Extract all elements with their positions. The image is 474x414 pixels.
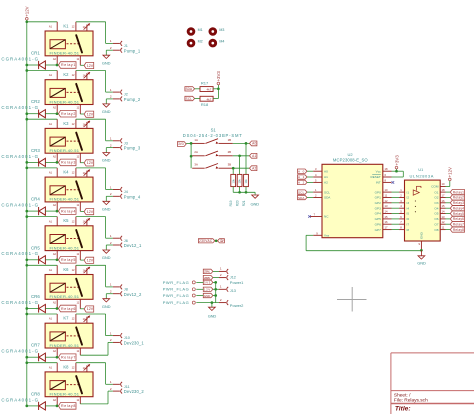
node coil junction row 2 — [25, 112, 58, 115]
svg-text:CR5: CR5 — [31, 245, 40, 250]
label Relay4 out — [450, 206, 464, 211]
relay K6 FINDER-40.51 — [45, 265, 93, 309]
svg-text:FINDER-40.51: FINDER-40.51 — [50, 51, 80, 56]
label Relay6 out — [450, 216, 464, 221]
svg-text:A2: A2 — [53, 349, 57, 353]
node U1 gnd junction — [420, 249, 423, 252]
label 12V row 3 — [84, 160, 94, 166]
svg-text:3A: 3A — [194, 163, 198, 167]
svg-text:A1: A1 — [49, 171, 53, 175]
svg-text:Title:: Title: — [395, 405, 411, 412]
ground U1 — [417, 250, 426, 265]
wire pin2 to GND row 6 — [106, 294, 113, 299]
wire common pin row 3 — [80, 162, 84, 164]
svg-text:16: 16 — [385, 220, 388, 224]
svg-text:FINDER-40.51: FINDER-40.51 — [50, 99, 80, 104]
pin 3 U1 I3 — [399, 199, 409, 205]
power symbol +12V — [25, 6, 30, 20]
svg-text:A2: A2 — [324, 181, 328, 185]
wire R19 to gnd bus — [232, 187, 234, 193]
svg-text:16: 16 — [442, 199, 445, 203]
ground row 5 — [102, 250, 111, 260]
svg-text:SCL: SCL — [186, 97, 193, 101]
pin 12 U2 GP2 — [375, 199, 392, 205]
svg-text:File: Relays.sch: File: Relays.sch — [394, 398, 428, 404]
pin 14 U1 O5 — [434, 210, 445, 216]
svg-text:I5: I5 — [407, 212, 410, 216]
svg-text:A1: A1 — [49, 73, 53, 77]
wire SCL to R18 — [195, 98, 200, 100]
label SDA at U2 pin 2 — [298, 195, 308, 200]
diode CR3 CGRA4001-G — [1, 148, 58, 167]
svg-text:15: 15 — [385, 215, 388, 219]
svg-text:FINDER-40.51: FINDER-40.51 — [50, 245, 80, 250]
pin 3 U2 A0 — [307, 167, 328, 173]
svg-text:Relay2: Relay2 — [61, 112, 75, 116]
wire +12V to relay K4 coil — [27, 167, 57, 169]
svg-text:O3: O3 — [434, 201, 438, 205]
svg-text:14: 14 — [442, 210, 445, 214]
svg-text:CR4: CR4 — [31, 197, 40, 202]
svg-text:15: 15 — [442, 204, 445, 208]
label 3V3 switch feed — [177, 142, 186, 147]
svg-text:Vcc: Vcc — [376, 169, 382, 173]
pin 11 U2 GP1 — [375, 194, 392, 200]
node coil junction row 5 — [25, 258, 58, 261]
diode CR4 CGRA4001-G — [1, 197, 58, 216]
label Relay1 out — [450, 190, 464, 195]
svg-text:3V3: 3V3 — [178, 142, 184, 146]
diode CR7 CGRA4001-G — [1, 343, 58, 362]
pin 10 U2 GP0 — [375, 188, 392, 194]
svg-text:Sheet: /: Sheet: / — [394, 392, 411, 398]
mounting hole M3 — [209, 27, 225, 36]
relay K4 FINDER-40.51 — [45, 168, 93, 212]
wire J10 pin2 to relay common — [80, 342, 113, 355]
svg-text:K5: K5 — [63, 218, 69, 223]
wire O4 to label — [446, 207, 451, 209]
label 12V row 6 — [84, 306, 94, 312]
title block text — [394, 392, 428, 412]
svg-text:FINDER-40.51: FINDER-40.51 — [50, 148, 80, 153]
svg-text:Pump_4: Pump_4 — [124, 194, 141, 199]
ground power input — [208, 307, 217, 318]
svg-text:230VL: 230VL — [204, 270, 211, 274]
svg-text:Relay6: Relay6 — [453, 217, 464, 221]
svg-text:A1: A1 — [49, 122, 53, 126]
pin 8 U2 INT — [376, 178, 392, 184]
node gnd bus junctions — [238, 191, 247, 194]
pin 2 U1 I2 — [399, 194, 409, 200]
diode CR5 CGRA4001-G — [1, 245, 58, 264]
wire pulldown gnd bus — [233, 192, 255, 195]
svg-text:CR8: CR8 — [31, 391, 40, 396]
wire pullups to +3V3 — [213, 85, 218, 99]
wire O6 to label — [446, 218, 451, 220]
svg-text:12V: 12V — [87, 161, 94, 165]
node coil junction row 8 — [25, 405, 58, 408]
pin 4 U1 I4 — [399, 204, 409, 210]
svg-text:12V: 12V — [87, 64, 94, 68]
pin 10 U1 COM — [431, 182, 445, 189]
svg-text:GND: GND — [102, 206, 111, 211]
svg-text:S1: S1 — [211, 128, 217, 133]
svg-text:K2: K2 — [63, 72, 69, 77]
label Relay8 out — [450, 227, 464, 232]
svg-text:10k: 10k — [231, 179, 235, 184]
resistor R19 pulldown — [231, 174, 236, 186]
pin 8 U1 I8 — [399, 226, 409, 232]
svg-text:PWR_FLAG: PWR_FLAG — [163, 293, 189, 298]
label SDA — [185, 87, 195, 91]
ic U1 ULN2803A — [405, 168, 441, 241]
svg-text:GND: GND — [204, 294, 211, 298]
svg-text:2A: 2A — [194, 150, 198, 154]
svg-text:CGRA4001-G: CGRA4001-G — [1, 397, 38, 402]
wire pulldown drop 1 — [245, 143, 247, 174]
power flag 4 — [163, 300, 196, 305]
svg-text:Pump_3: Pump_3 — [124, 146, 141, 151]
mounting hole M1 — [187, 27, 203, 36]
pin 13 U2 GP3 — [375, 204, 392, 210]
node power tie junctions — [214, 281, 217, 297]
darlington driver symbol — [413, 186, 421, 212]
no-connect INT — [392, 181, 395, 184]
svg-text:R20: R20 — [236, 200, 240, 206]
svg-text:A1: A1 — [324, 175, 328, 179]
connector J8 Dev12_2 — [110, 283, 142, 297]
svg-text:R19: R19 — [229, 200, 233, 206]
node +12V junction row 4 — [25, 167, 28, 170]
svg-text:I4: I4 — [407, 206, 410, 210]
relay K5 FINDER-40.51 — [45, 217, 93, 261]
svg-text:14: 14 — [385, 210, 388, 214]
svg-text:Pump_2: Pump_2 — [124, 97, 141, 102]
svg-text:A2: A2 — [53, 203, 57, 207]
svg-text:Dev12_2: Dev12_2 — [124, 292, 142, 297]
svg-text:SDA: SDA — [324, 196, 331, 200]
label 12V tie — [218, 239, 225, 243]
pin 17 U2 GP7 — [375, 226, 392, 232]
power flag 3 — [163, 293, 196, 298]
node +12V junction row 8 — [25, 361, 28, 364]
svg-text:FINDER-40.51: FINDER-40.51 — [50, 392, 80, 397]
svg-text:Relay8: Relay8 — [61, 404, 75, 408]
pin 15 U1 O4 — [434, 204, 445, 210]
svg-text:R18: R18 — [201, 102, 209, 107]
svg-text:Dev230_2: Dev230_2 — [124, 389, 145, 394]
diode CR1 CGRA4001-G — [1, 51, 58, 70]
svg-text:12V: 12V — [87, 210, 94, 214]
svg-text:GND: GND — [102, 60, 111, 65]
label A1 — [250, 153, 257, 158]
svg-text:RESET: RESET — [370, 175, 380, 179]
ground row 2 — [102, 104, 111, 114]
label 230VN power block — [203, 275, 213, 280]
svg-text:230VAC: 230VAC — [199, 239, 213, 243]
ground row 4 — [102, 201, 111, 211]
node coil junction row 4 — [25, 210, 58, 213]
relay K2 FINDER-40.51 — [45, 71, 93, 115]
svg-text:K3: K3 — [63, 121, 69, 126]
power symbol +12V U1 — [448, 167, 453, 181]
svg-text:CGRA4001-G: CGRA4001-G — [1, 56, 38, 61]
wire R21 to gnd bus — [245, 187, 247, 193]
label 12V row 2 — [84, 111, 94, 117]
pin 16 U1 O3 — [434, 199, 445, 205]
svg-text:+12V: +12V — [25, 6, 30, 16]
wire pole 1 to label A0 — [233, 142, 250, 144]
label Relay5 out — [450, 211, 464, 216]
label A2 — [250, 166, 257, 171]
power symbol +3V3 pullups — [216, 71, 221, 85]
wire +12V to relay K2 coil — [27, 70, 57, 72]
svg-text:12V: 12V — [87, 307, 94, 311]
svg-text:CGRA4001-G: CGRA4001-G — [1, 203, 38, 208]
svg-text:12V: 12V — [204, 288, 210, 292]
svg-text:I6: I6 — [407, 217, 410, 221]
svg-text:M2: M2 — [198, 40, 203, 44]
svg-text:1B: 1B — [228, 138, 232, 142]
wire common pin row 6 — [80, 308, 84, 310]
svg-text:A1: A1 — [252, 154, 256, 158]
label 12V row 1 — [84, 62, 94, 68]
pin 18 U2 Vcc — [376, 167, 392, 173]
pin 15 U2 GP5 — [375, 215, 392, 221]
svg-text:12: 12 — [442, 220, 445, 224]
wire Vcc to +3V3 and RESET — [392, 169, 404, 177]
wire common pin row 2 — [80, 113, 84, 115]
label Relay7 out — [450, 222, 464, 227]
wire O8 to label — [446, 229, 451, 231]
wire pole 3 to label A2 — [233, 167, 250, 169]
pin 1 U2 SCL — [307, 188, 330, 194]
power flag 2 — [163, 287, 196, 292]
mounting hole M2 — [187, 39, 203, 48]
wire +12V to relay K5 coil — [27, 216, 57, 218]
wire +12V to relay K8 coil — [27, 362, 57, 364]
svg-text:FINDER-40.51: FINDER-40.51 — [50, 343, 80, 348]
node coil junction row 6 — [25, 307, 58, 310]
label Relay6 — [59, 305, 77, 312]
mounting hole M4 — [209, 39, 225, 48]
svg-text:CGRA4001-G: CGRA4001-G — [1, 300, 38, 305]
svg-text:CGRA4001-G: CGRA4001-G — [1, 105, 38, 110]
svg-text:CGRA4001-G: CGRA4001-G — [1, 251, 38, 256]
pin 9 U1 GND — [419, 231, 424, 250]
wire O3 to label — [446, 202, 451, 204]
node +12V junction row 7 — [25, 313, 28, 316]
svg-text:A1: A1 — [49, 365, 53, 369]
svg-text:GP1: GP1 — [375, 196, 381, 200]
resistor R18 4k7 — [200, 96, 213, 107]
svg-text:Power2: Power2 — [230, 303, 244, 308]
wire common pin row 1 — [80, 64, 84, 66]
wire O1 to label — [446, 191, 451, 193]
svg-text:K8: K8 — [63, 364, 69, 369]
svg-text:+3V3: +3V3 — [394, 155, 399, 166]
pin 18 U1 O1 — [434, 188, 445, 194]
connector J4 Pump_4 — [110, 185, 141, 199]
svg-text:FINDER-40.51: FINDER-40.51 — [50, 197, 80, 202]
svg-text:NC: NC — [324, 215, 329, 219]
svg-text:O7: O7 — [434, 222, 438, 226]
pin 9 U2 Vss — [313, 231, 329, 237]
wire Vss to gnd bus — [306, 235, 421, 250]
wire +12V to relay K1 coil — [27, 21, 57, 23]
svg-text:GP6: GP6 — [375, 222, 381, 226]
wire relay K8 contact to J11 — [76, 363, 113, 385]
svg-text:GND: GND — [208, 313, 217, 318]
svg-text:SCL: SCL — [298, 190, 305, 194]
wire +12V to relay K7 coil — [27, 313, 57, 315]
svg-text:Relay1: Relay1 — [453, 190, 464, 194]
svg-text:I2: I2 — [407, 196, 410, 200]
svg-text:13: 13 — [442, 215, 445, 219]
label Relay5 — [59, 257, 77, 264]
resistor R17 4k7 — [200, 80, 213, 91]
label Relay8 — [59, 403, 77, 410]
label Relay2 out — [450, 195, 464, 200]
svg-text:Power1: Power1 — [230, 280, 244, 285]
svg-text:GND: GND — [102, 109, 111, 114]
connector J12 Power1 — [213, 267, 244, 286]
wire relay K6 contact to J8 — [76, 265, 113, 287]
label GND power block — [203, 293, 213, 298]
svg-text:Relay2: Relay2 — [453, 196, 464, 200]
connector J10 Dev230_1 — [110, 331, 145, 345]
wire relay K1 contact to J1 — [76, 22, 113, 44]
svg-text:GND: GND — [417, 261, 426, 266]
pin 7 U1 I7 — [399, 220, 409, 226]
svg-text:A2: A2 — [53, 154, 57, 158]
svg-text:CR3: CR3 — [31, 148, 40, 153]
svg-text:PWR_FLAG: PWR_FLAG — [163, 280, 189, 285]
svg-text:MCP23008-E_SO: MCP23008-E_SO — [333, 157, 369, 162]
wire pulldown drop 2 — [239, 156, 241, 175]
pin 1 U1 I1 — [399, 188, 409, 194]
svg-text:O8: O8 — [434, 228, 438, 232]
wire common pin row 5 — [80, 259, 84, 261]
ground row 1 — [102, 55, 111, 65]
pin 12 U1 O7 — [434, 220, 445, 226]
svg-text:CR6: CR6 — [31, 294, 40, 299]
svg-text:Relay5: Relay5 — [61, 258, 75, 262]
pin 6 U1 I6 — [399, 215, 409, 221]
pin 5 U2 A2 — [307, 178, 328, 184]
node Vcc junction — [395, 170, 398, 173]
wire J11 pin2 to relay common — [80, 391, 113, 404]
wire relay K2 contact to J2 — [76, 71, 113, 93]
wire GP2 to U1 I3 — [392, 202, 400, 204]
svg-text:Pump_1: Pump_1 — [124, 48, 141, 53]
svg-text:4k7: 4k7 — [207, 97, 212, 101]
svg-text:A2: A2 — [53, 252, 57, 256]
wire GP5 to U1 I6 — [392, 218, 400, 220]
svg-text:+12V: +12V — [448, 167, 453, 177]
wire pin2 to GND row 4 — [106, 196, 113, 201]
pin 2 U2 SDA — [307, 194, 331, 200]
svg-text:R17: R17 — [201, 80, 209, 85]
svg-text:3B: 3B — [228, 163, 232, 167]
label Relay7 — [59, 354, 77, 361]
label Relay4 — [59, 208, 77, 215]
svg-text:10k: 10k — [238, 179, 242, 184]
diode CR2 CGRA4001-G — [1, 99, 58, 118]
wire pin2 to GND row 5 — [106, 245, 113, 250]
pin 16 U2 GP6 — [375, 220, 392, 226]
pin 11 U1 O8 — [434, 226, 445, 232]
node pole 3 junction — [232, 167, 235, 170]
ground switch pulldowns — [251, 195, 260, 207]
svg-text:17: 17 — [385, 226, 388, 230]
node coil junction row 7 — [25, 356, 58, 359]
connector J13 Power2 — [219, 285, 244, 309]
svg-text:Relay7: Relay7 — [453, 223, 464, 227]
label SCL — [185, 96, 195, 101]
wire relay K7 contact to J10 — [76, 314, 113, 336]
node +12V junction row 5 — [25, 215, 28, 218]
wire GP3 to U1 I4 — [392, 207, 400, 209]
wire common pin row 4 — [80, 210, 84, 212]
label 12V row 5 — [84, 257, 94, 263]
wire GP1 to U1 I2 — [392, 197, 400, 199]
connector J1 Pump_1 — [110, 39, 141, 53]
svg-text:I7: I7 — [407, 222, 410, 226]
svg-text:M4: M4 — [219, 40, 224, 44]
connector J2 Pump_2 — [110, 88, 141, 102]
svg-text:CGRA4001-G: CGRA4001-G — [1, 349, 38, 354]
wire switch feed rail — [186, 143, 192, 168]
svg-text:GP7: GP7 — [375, 228, 381, 232]
pin 14 U2 GP4 — [375, 210, 392, 216]
svg-text:GP5: GP5 — [375, 217, 381, 221]
svg-text:GP4: GP4 — [375, 212, 381, 216]
svg-text:Relay6: Relay6 — [61, 307, 75, 311]
label SCL at U2 pin 1 — [298, 190, 308, 194]
svg-text:GND: GND — [102, 255, 111, 260]
labels R19 R20 R21 — [229, 200, 246, 206]
svg-text:M1: M1 — [198, 28, 203, 32]
pin 4 U2 A1 — [307, 173, 328, 179]
switch pole 1 — [192, 138, 233, 144]
wire pulldown drop 3 — [232, 168, 234, 174]
wire pin2 to GND row 1 — [106, 50, 113, 55]
svg-text:GND: GND — [102, 304, 111, 309]
wire pin2 to GND row 2 — [106, 99, 113, 104]
wire COM to +12V — [446, 181, 450, 187]
svg-text:O2: O2 — [434, 196, 438, 200]
pin 13 U1 O6 — [434, 215, 445, 221]
svg-text:SDA: SDA — [186, 87, 193, 91]
svg-text:13: 13 — [385, 204, 388, 208]
svg-text:R21: R21 — [242, 200, 246, 206]
label A1 at U2 pin 4 — [298, 175, 308, 179]
svg-text:J13: J13 — [230, 289, 236, 293]
svg-text:K1: K1 — [63, 23, 69, 28]
svg-text:Vss: Vss — [324, 234, 330, 238]
svg-text:Relay3: Relay3 — [453, 201, 464, 205]
svg-text:Relay4: Relay4 — [453, 206, 464, 210]
wire +12V to relay K6 coil — [27, 264, 57, 266]
svg-text:A2: A2 — [53, 57, 57, 61]
svg-text:K6: K6 — [63, 267, 69, 272]
svg-text:Relay4: Relay4 — [61, 209, 75, 213]
svg-text:K7: K7 — [63, 316, 69, 321]
svg-text:ULN2803A: ULN2803A — [410, 173, 434, 178]
label 230VL power block — [203, 269, 213, 273]
label 230VAC — [198, 239, 214, 243]
